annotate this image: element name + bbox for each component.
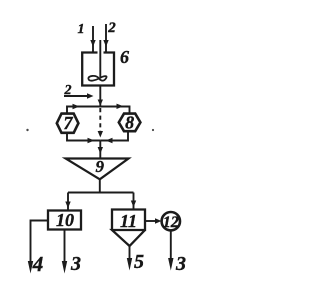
wire to 10 with arrow bbox=[65, 193, 70, 211]
svg-text:12: 12 bbox=[163, 214, 179, 231]
svg-text:7: 7 bbox=[64, 113, 74, 133]
collect wire from 8 with arrow bbox=[100, 131, 128, 143]
separator 9 triangle bbox=[66, 159, 129, 180]
heat exchanger 7 hexagon bbox=[57, 114, 79, 133]
hopper 11 bbox=[112, 210, 145, 247]
stream 3 wire from 12 with arrow bbox=[168, 231, 173, 271]
svg-text:2: 2 bbox=[64, 83, 72, 98]
mixer vessel 6 bbox=[82, 53, 114, 86]
vessel outlet wire with arrow bbox=[98, 86, 103, 107]
separator feed wire with arrow bbox=[98, 141, 103, 159]
bypass dashed wire with arrow bbox=[98, 108, 103, 138]
svg-text:2: 2 bbox=[107, 20, 116, 36]
stream 2 inlet arrow bbox=[103, 24, 108, 52]
svg-text:4: 4 bbox=[32, 252, 44, 276]
svg-text:6: 6 bbox=[120, 47, 129, 67]
cyclone 12 circle bbox=[162, 212, 180, 230]
speck right bbox=[152, 129, 154, 131]
stream 3 wire from 10 with arrow bbox=[62, 230, 67, 274]
svg-text:9: 9 bbox=[96, 157, 105, 176]
collect wire from 7 with arrow bbox=[67, 133, 100, 143]
svg-text:1: 1 bbox=[78, 22, 85, 37]
wire to 11 with arrow bbox=[131, 193, 136, 210]
svg-text:5: 5 bbox=[134, 251, 144, 273]
svg-text:3: 3 bbox=[70, 253, 81, 275]
stream 1 inlet arrow bbox=[90, 26, 95, 52]
speck left bbox=[26, 129, 28, 131]
svg-text:3: 3 bbox=[175, 253, 186, 275]
svg-text:11: 11 bbox=[120, 211, 137, 231]
svg-text:8: 8 bbox=[125, 113, 134, 133]
stream 4 wire with arrow bbox=[28, 221, 48, 274]
tee distribution line bbox=[67, 107, 130, 115]
stirrer shaft bbox=[99, 40, 101, 77]
arrow on right tee branch bbox=[117, 104, 124, 109]
filter 10 rectangle bbox=[48, 211, 81, 230]
stirrer impeller bbox=[88, 76, 106, 81]
stream 5 wire with arrow bbox=[127, 246, 132, 271]
splitter wire bbox=[68, 179, 134, 192]
wire 11 to 12 with arrow bbox=[145, 218, 162, 223]
svg-text:10: 10 bbox=[56, 210, 74, 230]
stream 2 recycle side arrow bbox=[64, 93, 94, 98]
arrow on left tee branch bbox=[73, 104, 80, 109]
heat exchanger 8 hexagon bbox=[119, 114, 141, 132]
